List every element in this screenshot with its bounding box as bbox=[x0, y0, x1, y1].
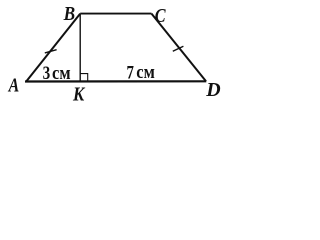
svg-text:B: B bbox=[63, 3, 75, 25]
svg-text:см: см bbox=[52, 63, 71, 84]
height BK bbox=[79, 14, 81, 81]
svg-text:см: см bbox=[136, 62, 155, 83]
side CD bbox=[152, 14, 207, 82]
base AD bbox=[25, 80, 206, 82]
tick mark on CD bbox=[173, 46, 184, 51]
svg-text:A: A bbox=[7, 74, 19, 96]
right-angle mark at K bbox=[80, 74, 88, 81]
svg-text:K: K bbox=[72, 83, 86, 102]
svg-text:C: C bbox=[155, 5, 166, 27]
svg-text:7: 7 bbox=[127, 62, 135, 83]
svg-text:3: 3 bbox=[43, 63, 51, 84]
side AB bbox=[26, 14, 80, 82]
svg-text:D: D bbox=[205, 79, 220, 101]
top side BC bbox=[80, 13, 151, 15]
tick mark on AB bbox=[45, 50, 57, 53]
